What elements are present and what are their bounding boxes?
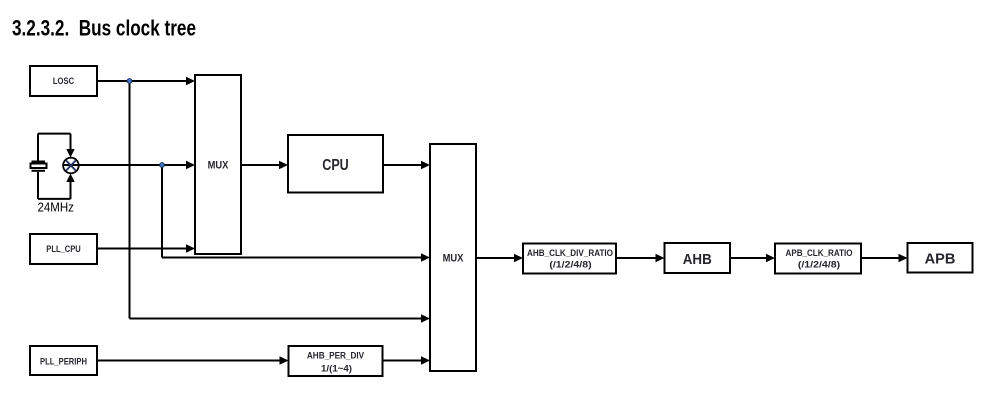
svg-text:CPU: CPU <box>322 157 349 174</box>
svg-text:PLL_PERIPH: PLL_PERIPH <box>40 357 87 367</box>
svg-text:MUX: MUX <box>208 160 229 172</box>
svg-text:AHB_CLK_DIV_RATIO: AHB_CLK_DIV_RATIO <box>527 248 613 258</box>
svg-text:APB: APB <box>925 251 956 268</box>
svg-text:PLL_CPU: PLL_CPU <box>46 244 81 254</box>
svg-text:AHB_PER_DIV: AHB_PER_DIV <box>307 351 365 361</box>
svg-text:LOSC: LOSC <box>53 76 74 86</box>
svg-text:24MHz: 24MHz <box>38 200 74 215</box>
svg-text:3.2.3.2. Bus clock tree: 3.2.3.2. Bus clock tree <box>12 16 196 41</box>
svg-text:1/(1~4): 1/(1~4) <box>321 363 352 373</box>
svg-text:APB_CLK_RATIO: APB_CLK_RATIO <box>786 248 853 258</box>
svg-text:AHB: AHB <box>683 251 712 268</box>
svg-text:MUX: MUX <box>443 253 464 265</box>
svg-text:(/1/2/4/8): (/1/2/4/8) <box>798 259 840 269</box>
svg-text:(/1/2/4/8): (/1/2/4/8) <box>549 259 591 269</box>
